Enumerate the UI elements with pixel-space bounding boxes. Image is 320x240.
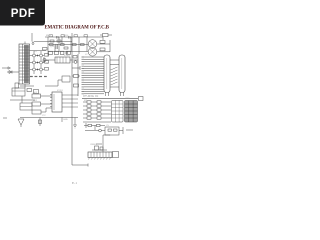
wire vertical rails top: [32, 33, 87, 56]
transformer T1 winding A: [88, 40, 97, 49]
resistor R11: [97, 124, 101, 126]
svg-text:EMATIC DIAGRAM OF P.C.B: EMATIC DIAGRAM OF P.C.B: [45, 25, 110, 30]
arrow input left edge: [2, 67, 11, 69]
wire top horizontal rails: [34, 37, 103, 52]
svg-text:Y/C: Y/C: [42, 115, 46, 117]
wires around U3: [44, 57, 78, 63]
resistor rows grid left: [83, 102, 111, 122]
svg-text:IC801: IC801: [64, 55, 71, 57]
terminal strip: [88, 152, 112, 158]
box VOL label: [15, 83, 19, 88]
junction dots: [37, 55, 38, 56]
scattered faint labels: [33, 35, 130, 146]
svg-text:CN2: CN2: [125, 98, 130, 100]
table block 1: [112, 101, 124, 123]
transistor Q6: [40, 68, 43, 71]
resistor row above rail1: [49, 35, 53, 37]
resistor R2: [50, 40, 54, 42]
label box L2: [32, 102, 41, 106]
component box center: [62, 76, 70, 82]
wire down from box: [103, 135, 110, 152]
label text row dark blobs: [30, 76, 33, 77]
dark strip beside connector: [24, 45, 29, 83]
IC tube 1: [104, 55, 110, 93]
wires transistor cluster: [30, 51, 47, 75]
wire L bottom: [72, 164, 88, 167]
small box right top: [139, 97, 144, 101]
small comps on rails: [74, 75, 79, 78]
vertical rail x72: [72, 54, 78, 165]
hatch block between tubes: [111, 67, 118, 85]
resistor R9: [100, 48, 105, 51]
transistor Q3: [33, 61, 36, 64]
PDF badge: [0, 0, 45, 26]
wires transformer: [97, 37, 110, 52]
IC tube 2: [119, 55, 125, 93]
transistor Q5: [33, 68, 36, 71]
table block 2 (darker): [125, 101, 138, 123]
ground funnel: [18, 119, 24, 127]
svg-text:CN801: CN801: [90, 144, 98, 146]
wire connector top to rail: [25, 42, 33, 45]
wires label boxes to IC: [41, 96, 53, 112]
svg-text:C410: C410: [63, 35, 69, 37]
bus of horizontal lines: [84, 57, 104, 94]
capacitor C1: [56, 44, 58, 49]
IC U3 small top: [55, 57, 70, 63]
wire to B2: [10, 96, 35, 103]
box B1: [12, 88, 25, 96]
transistor Q7: [43, 58, 46, 61]
right short wire: [126, 129, 133, 131]
left edge small mark: [3, 117, 7, 119]
wire lower-left connector bottom: [20, 84, 34, 88]
transistor Q2: [40, 54, 43, 57]
resistor R10: [88, 124, 92, 126]
long wire bottom rail: [20, 118, 78, 127]
strip side box: [113, 152, 119, 158]
resistor R7: [39, 120, 42, 124]
svg-text:GND: GND: [63, 119, 68, 121]
svg-text:E-1: E-1: [72, 181, 77, 185]
transistor Q1: [33, 54, 36, 57]
resistor R6: [34, 90, 39, 94]
component row y52: [49, 51, 53, 54]
svg-text:VT-DIG IC: VT-DIG IC: [83, 94, 99, 98]
capacitor C2: [66, 52, 68, 55]
svg-text:PDF: PDF: [11, 7, 35, 20]
resistor R5: [27, 89, 32, 92]
comps above strip: [95, 146, 99, 150]
wires below grid: [84, 123, 105, 130]
node dot: [32, 43, 34, 45]
resistor R1: [43, 48, 48, 51]
transistor Q8: [99, 129, 102, 132]
component box mid-bottom: [105, 127, 119, 135]
capacitor marks top: [57, 36, 71, 39]
ground right: [73, 125, 77, 128]
resistor side boxes: [45, 54, 49, 57]
resistor R8: [100, 41, 105, 44]
label box L3: [32, 110, 41, 114]
horizontal divider line: [82, 98, 138, 100]
resistor row on rail2: [50, 44, 54, 46]
transistor Q4: [40, 61, 43, 64]
box B2: [20, 103, 32, 110]
connector J1 ladder: [19, 44, 30, 84]
transformer T1 winding B: [88, 48, 97, 57]
component top-right: [103, 34, 109, 37]
op-amp IC U2: [52, 92, 62, 112]
label box L1: [32, 94, 41, 98]
svg-text:IC201: IC201: [57, 90, 64, 92]
bus left ticks: [82, 57, 85, 94]
resistor R3: [57, 40, 61, 42]
resistor R4: [64, 47, 68, 49]
svg-text:R512: R512: [46, 35, 52, 37]
diode D1 on left wire: [7, 71, 19, 74]
